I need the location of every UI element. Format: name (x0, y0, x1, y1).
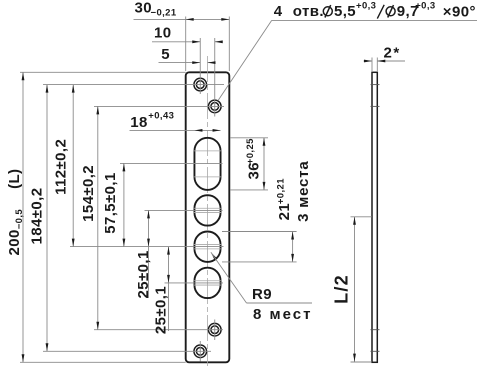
dimension 30 -0,21 (134, 18, 230, 20)
svg-text:4: 4 (274, 3, 283, 20)
plate edge extension to 30-dim (185, 17, 187, 72)
svg-text:5,5: 5,5 (334, 3, 356, 20)
svg-text:−0,21: −0,21 (151, 8, 177, 19)
svg-text:112±0,2: 112±0,2 (53, 139, 70, 195)
hole center lines (43, 84, 224, 86)
obround hole 1 (18x21) (194, 195, 220, 225)
dimension 2* (371, 58, 373, 72)
svg-text:+0,3: +0,3 (415, 0, 435, 11)
right dimension 21 +0,21 extension lines (222, 231, 297, 233)
plate outline front view (186, 72, 230, 362)
svg-text:184±0,2: 184±0,2 (29, 188, 46, 245)
svg-text:25±0,1: 25±0,1 (152, 286, 169, 334)
right dimension 21 +0,21 (292, 232, 294, 262)
countersunk hole top-right (208, 100, 221, 113)
left dimension 154±0,2 (97, 106, 99, 329)
svg-text:2*: 2* (384, 45, 401, 62)
svg-text:×90°: ×90° (443, 4, 476, 21)
countersunk hole top-left (194, 78, 207, 91)
obround 2 center extension (70, 246, 224, 248)
R9 leader (211, 252, 217, 259)
left dimension 57,5±0,1 (123, 163, 125, 246)
obround hole 2 (18x21) (194, 232, 220, 262)
slot obround 18x36 (194, 138, 220, 190)
callout 4 holes leader (218, 20, 272, 100)
svg-text:+0,21: +0,21 (276, 178, 287, 204)
svg-text:154±0,2: 154±0,2 (80, 165, 97, 222)
svg-text:+0,25: +0,25 (245, 138, 256, 164)
obround hole 3 (18x21) (194, 268, 220, 298)
left dimension 25±0,1 second (168, 247, 170, 331)
diameter symbol 2 (386, 5, 395, 17)
svg-text:3 места: 3 места (295, 161, 312, 222)
plate top/bottom extension lines (20, 71, 186, 73)
left dimension 184±0,2 (46, 85, 48, 352)
countersunk hole bottom-left (194, 345, 207, 358)
svg-text:21: 21 (276, 203, 293, 221)
svg-text:25±0,1: 25±0,1 (135, 250, 152, 298)
dimension 10 (152, 41, 200, 43)
svg-text:+0,3: +0,3 (356, 0, 376, 11)
dimension 5 (159, 62, 201, 64)
left dimension 200 -0,5 (L) (22, 72, 24, 362)
svg-text:8 мест: 8 мест (253, 306, 312, 323)
svg-text:+0,43: +0,43 (148, 110, 174, 121)
svg-text:5: 5 (161, 46, 170, 63)
obround 3 center extension (165, 282, 224, 284)
left dimension 25±0,1 first (148, 210, 150, 298)
svg-text:R9: R9 (252, 286, 272, 303)
dimension L/2 (351, 216, 372, 218)
main vertical center line (207, 56, 209, 366)
side view plate (372, 72, 377, 362)
obround 1 center extension (145, 209, 223, 211)
svg-text:57,5±0,1: 57,5±0,1 (102, 172, 119, 233)
svg-text:10: 10 (154, 25, 172, 42)
svg-text:18: 18 (130, 114, 148, 131)
dimension 18 +0,43 (130, 129, 221, 131)
right dimension 36 +0,25 extension lines (231, 137, 269, 139)
diameter symbol 1 (323, 5, 332, 17)
svg-text:30: 30 (135, 0, 153, 17)
svg-text:отв.: отв. (293, 3, 324, 20)
slot center line (120, 162, 223, 164)
fraction slash (377, 5, 384, 19)
right dimension 36 +0,25 (263, 138, 265, 190)
side view hole ticks (371, 84, 380, 86)
left dimension 112±0,2 (72, 85, 74, 247)
countersunk hole bottom-right (208, 323, 221, 336)
slot arc center marks (193, 150, 222, 152)
svg-text:L/2: L/2 (331, 274, 351, 304)
